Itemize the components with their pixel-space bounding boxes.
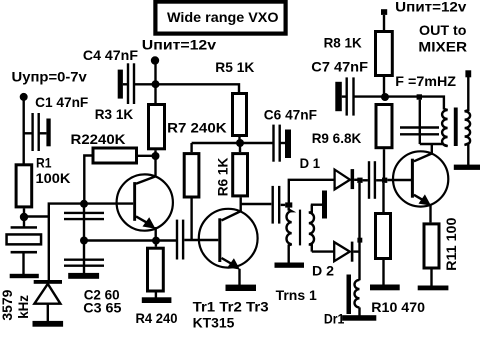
node below R1 xyxy=(20,213,28,221)
wire tank bottom link xyxy=(420,143,444,145)
wire collector to cap xyxy=(241,203,272,205)
capacitor C5 coupling Tr1-Tr2 xyxy=(177,220,183,260)
varicap diode D3 xyxy=(34,280,62,322)
wire up to D1 xyxy=(289,180,335,203)
svg-text:R5 1K: R5 1K xyxy=(215,59,254,75)
node Tr1 base wire xyxy=(80,200,88,208)
wire R10 bottom lead xyxy=(382,260,384,285)
crystal X1 3579 kHz xyxy=(7,226,42,274)
transformer Trns1 xyxy=(287,191,328,263)
wire R4 top lead xyxy=(155,241,157,247)
wire R3 bottom to Tr1 collector xyxy=(154,150,156,177)
transistor Tr2 xyxy=(199,209,258,285)
svg-text:C6 47nF: C6 47nF xyxy=(264,106,318,122)
node square after D1 xyxy=(357,178,362,183)
node square before Tr3 xyxy=(382,178,387,183)
secondary winding xyxy=(465,77,471,167)
ground below R10 xyxy=(370,285,400,291)
svg-text:MIXER: MIXER xyxy=(418,38,467,54)
svg-text:Dr1: Dr1 xyxy=(324,311,345,327)
wire terminal to R3 xyxy=(154,61,156,104)
ground below C3 xyxy=(68,273,99,279)
svg-text:Uупр=0-7v: Uупр=0-7v xyxy=(12,68,88,84)
node square Trns1 top xyxy=(285,202,292,207)
wire to Tr3 base xyxy=(387,179,411,181)
transistor Tr1 xyxy=(117,174,173,240)
wire C2 column xyxy=(83,204,85,274)
svg-text:kHz: kHz xyxy=(15,295,31,319)
svg-text:C4 47nF: C4 47nF xyxy=(83,47,139,63)
terminal OUT square xyxy=(465,70,471,77)
node R8/C7/R9 xyxy=(381,93,389,101)
terminal Uupr node xyxy=(20,93,28,101)
svg-text:Uпит=12v: Uпит=12v xyxy=(142,37,217,53)
ground below crystal xyxy=(10,274,39,278)
svg-text:F =7mHZ: F =7mHZ xyxy=(395,73,456,89)
svg-text:R9 6.8K: R9 6.8K xyxy=(312,130,362,146)
svg-text:KT315: KT315 xyxy=(193,314,235,330)
wire rail to R5 xyxy=(134,84,239,92)
terminal Upit left xyxy=(151,56,159,64)
wire emitter rail y240 xyxy=(84,239,176,241)
capacitor C2 xyxy=(64,213,104,219)
output transformer T2 xyxy=(442,77,470,167)
resistor R8 xyxy=(376,32,393,76)
resistor R6 xyxy=(233,154,248,196)
svg-text:C7 47nF: C7 47nF xyxy=(311,58,368,74)
node R2/collector junction xyxy=(152,152,160,160)
resistor R3 xyxy=(149,105,165,149)
svg-text:D 2: D 2 xyxy=(312,263,334,279)
transistor Tr3 xyxy=(393,151,448,222)
resistor R9 xyxy=(376,105,392,148)
resistor R1 xyxy=(16,165,32,207)
capacitor C8 to Tr3 base xyxy=(363,161,382,199)
secondary winding xyxy=(309,205,314,252)
resistor R10 xyxy=(376,214,391,259)
wire varicap column xyxy=(49,204,133,281)
node rail junction xyxy=(152,80,160,88)
core bar xyxy=(454,108,458,147)
wire R8 bottom xyxy=(383,77,385,97)
svg-text:C3 65: C3 65 xyxy=(83,299,121,315)
wire primary top lead xyxy=(288,208,290,211)
wire R4 bottom lead xyxy=(155,293,157,298)
capacitor C4 xyxy=(118,63,134,104)
wire R6 top lead xyxy=(239,143,241,152)
node R5/R6 xyxy=(236,139,244,147)
diode D2 xyxy=(312,242,360,262)
ground below R4 xyxy=(142,297,172,303)
resistor R4 xyxy=(148,248,164,291)
wire D1-D2 vertical xyxy=(358,183,360,280)
svg-text:R1: R1 xyxy=(36,155,52,171)
wire Uupr down to R1 xyxy=(23,97,25,164)
title box xyxy=(155,2,285,34)
resistor R7 xyxy=(184,154,199,197)
svg-text:R8 1K: R8 1K xyxy=(324,35,362,51)
ground below R11 xyxy=(418,286,449,291)
terminal Upit right square xyxy=(381,9,387,15)
wire R1 to node xyxy=(23,208,25,227)
choke Dr1 core xyxy=(347,275,352,315)
wire Tr2 collector lead xyxy=(239,197,241,212)
node Tr1 emitter xyxy=(152,237,160,245)
wire Dr1 bottom xyxy=(358,307,360,316)
resistor R11 xyxy=(424,224,439,268)
core xyxy=(299,210,301,246)
resistor R5 xyxy=(233,94,247,136)
resistor R2 xyxy=(93,148,137,163)
primary winding xyxy=(442,109,448,146)
wire R10 top lead xyxy=(382,183,384,212)
primary winding xyxy=(287,210,292,263)
wire R9 bottom lead xyxy=(383,149,385,178)
diode D1 xyxy=(335,169,358,189)
ground below output transformer xyxy=(454,165,480,170)
wire C7 to tank xyxy=(354,97,444,110)
svg-text:3579: 3579 xyxy=(0,289,15,320)
choke Dr1 winding xyxy=(355,280,360,308)
wire R7 top lead xyxy=(190,143,192,152)
capacitor C7 xyxy=(335,77,353,115)
terminal bar secondary top xyxy=(322,191,327,219)
ground below Dr1 xyxy=(342,315,376,321)
svg-text:Wide range VXO: Wide range VXO xyxy=(167,9,279,25)
svg-text:R10 470: R10 470 xyxy=(371,299,425,315)
wire node to varicap column xyxy=(24,215,50,217)
svg-text:100K: 100K xyxy=(36,170,71,186)
secondary top lead to bar xyxy=(311,203,322,205)
wire Tr3 collector lead xyxy=(431,144,433,155)
node square tank xyxy=(417,94,422,99)
svg-text:C1 47nF: C1 47nF xyxy=(35,94,89,110)
wire y143 xyxy=(192,142,273,144)
wire R2 left lead xyxy=(84,156,93,205)
ground below Trns1 primary xyxy=(275,263,305,268)
tank capacitor plates xyxy=(400,128,439,135)
svg-text:R11 100: R11 100 xyxy=(443,217,459,271)
wire R11 bottom xyxy=(430,270,432,287)
svg-text:R2240K: R2240K xyxy=(71,131,126,147)
ground below varicap xyxy=(33,321,64,327)
node square mid column xyxy=(357,238,362,243)
capacitor C6 xyxy=(274,125,292,162)
svg-text:R7 240K: R7 240K xyxy=(167,120,227,136)
svg-text:R4 240: R4 240 xyxy=(136,310,178,326)
capacitor C1 xyxy=(24,113,51,151)
wire tank cap column xyxy=(419,100,421,144)
wire cap to Tr2 base xyxy=(184,239,218,241)
svg-text:OUT to: OUT to xyxy=(419,22,467,38)
wire terminal to R8 xyxy=(383,15,385,31)
ground below Tr2 xyxy=(226,285,257,291)
capacitor C3 xyxy=(64,260,104,266)
wire R2 right lead xyxy=(138,155,156,157)
svg-text:Trns 1: Trns 1 xyxy=(276,287,317,303)
wire R5 bottom xyxy=(238,137,240,143)
svg-text:Tr1 Tr2 Tr3: Tr1 Tr2 Tr3 xyxy=(193,299,269,315)
svg-text:R6 1K: R6 1K xyxy=(215,158,231,197)
capacitor coupling Tr2-D1 xyxy=(273,186,286,224)
svg-text:D 1: D 1 xyxy=(300,155,321,171)
wire R7 bottom lead xyxy=(190,199,192,242)
svg-text:Uпит=12v: Uпит=12v xyxy=(395,0,466,15)
svg-text:R3 1K: R3 1K xyxy=(95,106,133,122)
node C2/C3 xyxy=(80,237,88,245)
